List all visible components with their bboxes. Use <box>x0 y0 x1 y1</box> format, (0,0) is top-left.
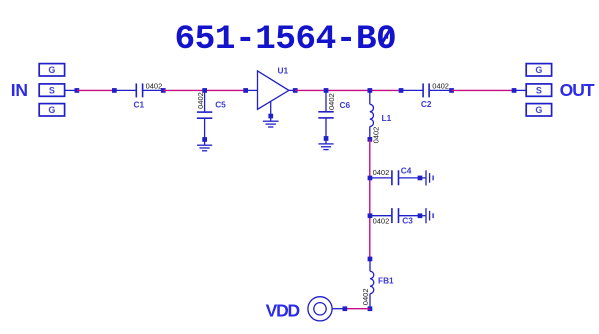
port OUT pad G1 <box>526 64 551 76</box>
wire IN pin stub <box>65 89 77 91</box>
node L1 pin 2 <box>368 137 373 142</box>
svg-text:S: S <box>536 85 542 95</box>
svg-text:G: G <box>48 65 55 75</box>
node C3 pin 2 <box>418 213 423 218</box>
svg-text:S: S <box>49 85 55 95</box>
svg-text:G: G <box>535 65 542 75</box>
port OUT pad S <box>526 84 551 96</box>
port IN pad S <box>39 84 64 96</box>
svg-text:IN: IN <box>11 80 28 100</box>
svg-text:0402: 0402 <box>361 289 370 306</box>
op-amp U1 <box>246 71 296 109</box>
svg-text:0402: 0402 <box>327 93 336 110</box>
wire VDD stub <box>332 308 344 310</box>
svg-text:651-1564-B0: 651-1564-B0 <box>175 20 397 59</box>
svg-text:C4: C4 <box>401 165 412 175</box>
wire net IN <box>77 89 114 91</box>
ground (C3, rotated) <box>420 208 433 223</box>
wire net OUT <box>452 89 515 91</box>
svg-text:C3: C3 <box>402 216 413 226</box>
inductor L1 <box>370 90 374 139</box>
node L1 junction <box>368 88 373 93</box>
svg-text:OUT: OUT <box>560 80 595 100</box>
node VDD pin <box>343 306 348 311</box>
node C4 junction <box>368 176 373 181</box>
svg-text:0402: 0402 <box>432 82 449 91</box>
capacitor C2 <box>401 83 452 97</box>
wire net VDD vertical <box>369 139 371 259</box>
node C1 pin 1 <box>112 88 117 93</box>
node C3 junction <box>368 213 373 218</box>
svg-text:FB1: FB1 <box>378 276 394 286</box>
node U1 input pin <box>243 88 248 93</box>
node IN pin square <box>75 88 80 93</box>
node C2 pin 1 <box>399 88 404 93</box>
svg-text:0402: 0402 <box>373 216 390 225</box>
port OUT pad G2 <box>526 104 551 116</box>
wire net C1-U1 <box>163 89 245 91</box>
ground (U1) <box>263 101 279 127</box>
capacitor C5 <box>197 90 212 139</box>
node C2 pin 2 <box>449 88 454 93</box>
svg-text:VDD: VDD <box>266 300 300 320</box>
svg-text:C6: C6 <box>340 100 351 110</box>
node C5 pin 2 <box>202 137 207 142</box>
wire net U1-C2 <box>295 89 401 91</box>
svg-text:G: G <box>535 105 542 115</box>
ground (C4, rotated) <box>420 170 433 185</box>
ground (C6) <box>318 138 333 149</box>
node U1 ground pin <box>268 114 273 119</box>
ferrite bead FB1 <box>370 259 374 309</box>
node OUT pin square <box>512 88 517 93</box>
node FB1 pin 2 <box>368 306 373 311</box>
wire OUT pin stub <box>514 89 526 91</box>
node C6 junction <box>324 88 329 93</box>
node U1 output pin <box>293 88 298 93</box>
svg-text:0402: 0402 <box>196 92 205 109</box>
capacitor C6 <box>318 90 333 138</box>
svg-text:0402: 0402 <box>373 168 390 177</box>
title 651-1564-B0 <box>175 20 397 59</box>
svg-text:C2: C2 <box>421 99 432 109</box>
svg-text:L1: L1 <box>382 113 392 123</box>
capacitor C3 <box>370 208 420 223</box>
node C6 pin 2 <box>324 136 329 141</box>
power port VDD symbol <box>308 297 332 321</box>
svg-text:C5: C5 <box>215 100 226 110</box>
node FB1 pin 1 <box>368 257 373 262</box>
node C4 pin 2 <box>418 176 423 181</box>
node C1 pin 2 <box>161 88 166 93</box>
svg-text:0402: 0402 <box>146 82 163 91</box>
wire net VDD bottom <box>345 308 370 310</box>
capacitor C1 <box>114 83 163 97</box>
svg-text:C1: C1 <box>134 100 145 110</box>
svg-text:0402: 0402 <box>372 127 381 144</box>
node C5 junction <box>202 88 207 93</box>
port IN pad G1 <box>39 64 64 76</box>
svg-text:G: G <box>48 105 55 115</box>
capacitor C4 <box>370 170 420 185</box>
svg-text:U1: U1 <box>278 65 289 75</box>
ground (C5) <box>197 139 212 150</box>
port IN pad G2 <box>39 104 64 116</box>
